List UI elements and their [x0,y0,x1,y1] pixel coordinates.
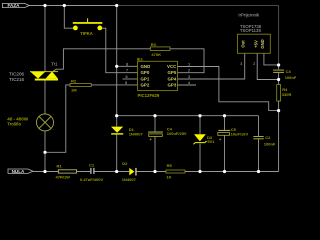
node GND line / mid rail [115,114,118,117]
wire IC pin8 [117,65,138,67]
wire IC pin1 VCC to supply [178,67,279,111]
capacitor C1 [80,162,103,182]
capacitor C2 [253,135,276,147]
wire top rail FAZA [29,5,117,7]
svg-text:C1: C1 [89,162,95,167]
node top rail / lamp-triac branch [43,4,46,7]
svg-text:Tr1: Tr1 [51,61,58,66]
svg-text:FAZA: FAZA [8,3,21,8]
svg-text:C3: C3 [286,69,292,74]
wire TSOP +5V pin [257,53,278,79]
svg-text:3: 3 [240,62,242,66]
svg-text:100nF: 100nF [264,142,276,147]
capacitor C3 [273,69,297,80]
wire IC pin3 to TSOP Out [178,53,245,79]
wire R3 to IC pin2 [170,49,204,73]
resistor R2 [70,78,91,92]
zener diode D3 [193,134,215,144]
TSOP pin numbers [240,62,255,66]
svg-text:5: 5 [125,81,127,85]
svg-text:Trošilo: Trošilo [7,122,21,127]
svg-text:1N4007: 1N4007 [122,177,137,182]
diode D2 [122,161,137,182]
wire top rail FAZA dim right section [117,5,279,7]
svg-text:NULA: NULA [12,169,25,174]
node lamp line / bottom rail [43,170,46,173]
wire R2 left lead to lamp line [45,85,70,152]
wire IC pin4 stub [178,84,197,86]
node top rail / TIPKA branch [63,4,66,7]
wire C4 branch [154,116,156,172]
triac type labels [9,71,25,81]
svg-text:GP4: GP4 [168,76,177,81]
lamp (load) [37,114,54,131]
svg-text:GP1: GP1 [141,76,150,81]
node D1 / bottom rail [115,170,118,173]
node C3 top / TSOP GND [277,63,280,66]
wire TSOP GND pin [264,53,279,65]
net flag NULA [8,169,33,174]
svg-text:GND: GND [141,64,151,69]
IC IE1 PIC12F629 [137,57,178,98]
svg-text:2: 2 [188,69,190,73]
svg-text:1M: 1M [71,88,77,93]
lamp labels [7,116,29,126]
svg-text:PIC12F629: PIC12F629 [138,93,160,98]
svg-text:1: 1 [188,62,190,66]
node bottom rail / C4 [153,170,156,173]
svg-text:R3: R3 [151,42,157,47]
node bottom rail / D3 [198,170,201,173]
wire lamp/triac branch upper [44,6,46,72]
svg-text:D2: D2 [122,161,128,166]
svg-text:8: 8 [126,62,128,66]
wire D1 to bottom rail [116,134,118,171]
svg-text:+: + [149,138,152,143]
svg-text:5V1: 5V1 [207,139,215,144]
svg-text:R5: R5 [167,163,173,168]
node bottom rail / C2 [257,170,260,173]
svg-text:R2: R2 [71,78,77,83]
node mid rail / C4 [153,114,156,117]
IR receiver TSOP1738/TSOP1138 [238,34,271,53]
wire lamp to bottom rail [44,131,46,172]
wire GND vertical (top rail to D1) [116,6,118,127]
node mid rail / D3 [198,114,201,117]
node GND line / IC pin 8 [115,65,118,68]
resistor R5 [166,163,185,180]
node C3 bottom / TSOP +5V / R4 [277,78,280,81]
wire mid rail (VSS) [117,115,259,117]
svg-text:GP0: GP0 [141,70,150,75]
svg-text:+5V: +5V [253,40,258,48]
triac Tr1 [30,61,58,80]
resistor R4 [277,85,292,102]
capacitor C5 electrolytic [218,127,249,143]
IR receiver labels [238,13,261,34]
wire triac to lamp [44,80,46,114]
svg-text:GP3: GP3 [168,83,177,88]
svg-text:GND: GND [260,39,265,48]
svg-text:Out: Out [241,40,246,48]
wire C2 branch [258,116,260,172]
svg-text:330R: 330R [282,92,292,97]
svg-text:TIC206: TIC206 [9,71,25,76]
svg-text:100nF: 100nF [285,75,297,80]
wire right vertical C3 gap [278,65,280,85]
node R4 bottom / VCC wire [277,109,280,112]
node lamp line / R2 branch [43,151,46,154]
svg-text:4: 4 [188,81,190,85]
capacitor C4 electrolytic [148,127,187,143]
wire C5 branch [224,116,226,172]
svg-text:TSOP1138: TSOP1138 [240,28,262,33]
svg-text:0.47uF/400V: 0.47uF/400V [80,177,103,182]
svg-text:GP5: GP5 [168,70,177,75]
node bottom rail / C5 [223,170,226,173]
svg-text:+: + [219,138,222,143]
svg-text:3: 3 [188,75,190,79]
wire TIPKA left lead [64,6,75,29]
svg-text:2: 2 [253,62,255,66]
pushbutton TIPKA [73,18,103,36]
IC pin name texts [141,64,178,88]
wire right vertical upper (FAZA to C3) [278,6,280,66]
svg-text:IE1: IE1 [137,57,144,62]
resistor R3 [150,42,170,57]
svg-text:100uF/25V: 100uF/25V [167,131,187,136]
wire bottom rail segments [33,171,279,173]
IC pin numbers [125,62,190,85]
svg-text:C2: C2 [265,135,271,140]
diode D1 [111,127,143,137]
svg-text:10uF/16V: 10uF/16V [231,131,249,136]
svg-text:1K: 1K [166,174,171,179]
svg-text:R1: R1 [57,163,63,168]
svg-text:TIPKA: TIPKA [80,31,93,36]
wire TIPKA right lead to IC pin7 [100,28,138,72]
wire R2 to IC pin5 [91,84,137,86]
wire right vertical R4 to bottom rail [278,101,280,172]
wire IC pin6 stub [123,78,138,80]
node top rail / GND branch [115,4,118,7]
svg-text:VCC: VCC [167,64,177,69]
svg-text:47R/1W: 47R/1W [56,175,71,180]
svg-text:TIC216: TIC216 [9,77,25,82]
svg-text:IrPrijemnik: IrPrijemnik [238,13,260,18]
svg-text:470K: 470K [151,52,161,57]
wire triac gate to R3 [53,49,150,72]
resistor R1 [56,163,77,179]
svg-text:7: 7 [126,69,128,73]
wire D3 branch [199,116,201,172]
svg-text:1N4007: 1N4007 [129,132,144,137]
node mid rail / C5 [223,114,226,117]
net flag FAZA [3,3,30,8]
svg-text:GP2: GP2 [141,83,150,88]
svg-text:6: 6 [125,75,127,79]
